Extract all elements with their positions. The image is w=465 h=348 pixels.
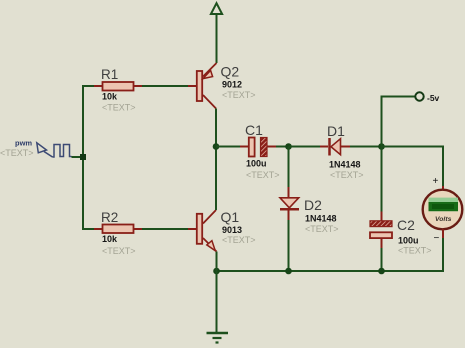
resistor R2	[94, 225, 142, 234]
wire left vertical R1-R2 column	[83, 86, 94, 229]
wire C2 to bottom rail	[381, 248, 383, 271]
terminal -5v	[415, 92, 423, 100]
power arrow (top supply)	[211, 3, 222, 14]
capacitor C1	[240, 138, 276, 157]
svg-text:-5v: -5v	[427, 93, 440, 103]
wire C1 to node B	[276, 146, 289, 148]
svg-text:100u: 100u	[398, 236, 419, 246]
wire node to C1	[216, 146, 240, 148]
svg-text:10k: 10k	[102, 234, 118, 244]
svg-text:10k: 10k	[102, 92, 118, 102]
svg-text:100u: 100u	[246, 159, 267, 169]
capacitor C2	[370, 212, 392, 249]
junction pwm tap	[80, 154, 86, 160]
transistor Q1	[188, 210, 217, 252]
svg-text:<TEXT>: <TEXT>	[222, 235, 256, 245]
svg-text:9012: 9012	[222, 80, 242, 90]
junction bottom ground tee	[213, 268, 220, 275]
svg-text:1N4148: 1N4148	[305, 214, 337, 224]
svg-text:D1: D1	[327, 123, 345, 139]
resistor R1	[94, 82, 142, 91]
svg-text:R2: R2	[101, 210, 118, 225]
svg-text:<TEXT>: <TEXT>	[222, 90, 256, 100]
svg-text:<TEXT>: <TEXT>	[305, 224, 339, 234]
svg-text:1N4148: 1N4148	[329, 160, 361, 170]
svg-text:<TEXT>: <TEXT>	[102, 103, 136, 113]
junction node B	[285, 143, 292, 150]
svg-text:<TEXT>: <TEXT>	[246, 170, 280, 180]
svg-text:+: +	[433, 176, 439, 187]
voltmeter U-VOLT	[423, 186, 463, 238]
wire Q1 collector up to node	[215, 147, 217, 211]
junction bottom C2	[378, 268, 385, 275]
svg-text:<TEXT>: <TEXT>	[0, 148, 34, 158]
pwm generator	[37, 143, 72, 157]
wire node C up and to -5v pin	[382, 97, 416, 147]
svg-text:<TEXT>: <TEXT>	[398, 246, 432, 256]
wire node C down to C2	[381, 147, 383, 212]
wire node C to voltmeter top	[382, 147, 444, 187]
svg-text:Volts: Volts	[435, 216, 452, 223]
wire Q2 collector down to node	[215, 109, 217, 147]
svg-text:pwm: pwm	[15, 139, 32, 148]
ground	[207, 333, 229, 343]
svg-text:D2: D2	[304, 197, 322, 213]
wire pwm to column	[72, 156, 84, 158]
wire top arrow to Q2 emitter	[216, 14, 218, 63]
svg-text:<TEXT>: <TEXT>	[330, 170, 364, 180]
wire voltmeter to bottom rail	[217, 238, 444, 271]
junction bottom D2	[285, 268, 292, 275]
wire Q1 emitter to ground	[216, 252, 218, 334]
diode D1	[320, 138, 350, 156]
wire D2 to bottom rail	[288, 220, 290, 271]
diode D2	[280, 187, 299, 220]
svg-text:9013: 9013	[222, 225, 242, 235]
svg-text:R1: R1	[101, 67, 118, 82]
svg-text:<TEXT>: <TEXT>	[102, 246, 136, 256]
wire node B down to D2	[288, 147, 290, 188]
svg-text:C2: C2	[397, 217, 415, 233]
svg-text:C1: C1	[245, 122, 263, 138]
junction collectors node	[213, 143, 220, 150]
svg-text:Q1: Q1	[221, 209, 240, 225]
wire node B to D1	[289, 146, 321, 148]
wire D1 to node C	[350, 146, 382, 148]
wire R2 to Q1 base	[142, 228, 188, 230]
wire R1 to Q2 base	[142, 85, 188, 87]
transistor Q2	[188, 63, 217, 109]
svg-text:Q2: Q2	[221, 64, 240, 80]
svg-text:−: −	[434, 233, 440, 244]
junction node C	[378, 143, 385, 150]
